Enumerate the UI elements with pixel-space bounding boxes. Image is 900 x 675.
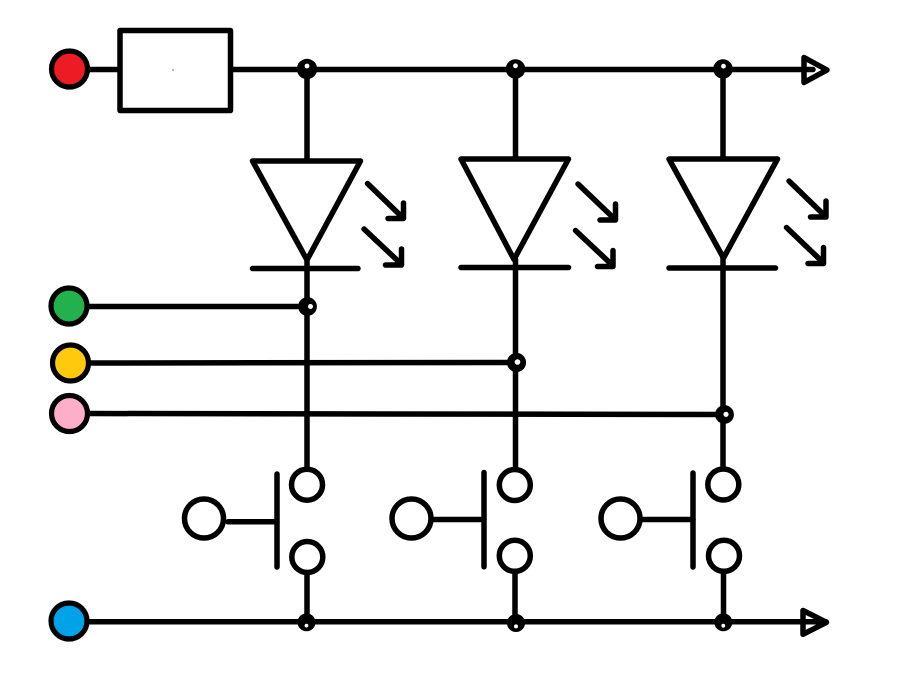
wire LED D3 cathode to switch S3 — [720, 258, 726, 467]
LED D2 emission arrow 2 — [576, 231, 614, 267]
LED D2 triangle — [461, 159, 569, 260]
wire node C to LED D3 anode — [720, 73, 726, 159]
LED D1 cathode bar — [253, 266, 359, 272]
switch S1 actuator bar — [274, 474, 280, 567]
LED D2 cathode bar — [461, 265, 569, 271]
LED D1 emission arrow 1 — [368, 184, 404, 219]
LED D1 emission arrow 2 — [364, 229, 402, 265]
node C (top rail / LED D3 anode) — [713, 59, 733, 79]
node G (bottom rail / S1) — [298, 613, 316, 631]
terminal J4 (pink, select line 3) — [52, 396, 88, 432]
wire S1 to bottom rail — [304, 573, 310, 621]
switch S3 actuator bar — [690, 473, 696, 567]
wire LED D1 cathode to switch S1 — [304, 260, 310, 467]
speck inside R1 — [172, 69, 174, 71]
switch S2 top contact — [499, 470, 530, 501]
arrow out (top rail continuation) — [804, 58, 827, 83]
switch S1 bottom contact — [292, 542, 323, 573]
wire bottom rail (J5 to arrow) — [88, 619, 826, 625]
wire LED D2 cathode to switch S2 — [513, 260, 519, 468]
switch S1 actuator link — [228, 519, 277, 525]
node B (top rail / LED D2 anode) — [506, 59, 526, 79]
terminal J2 (green, select line 1) — [51, 288, 87, 324]
switch S3 bottom contact — [709, 540, 740, 571]
LED D3 emission arrow 2 — [787, 228, 824, 264]
wire S2 to bottom rail — [512, 572, 518, 623]
switch S1 top contact — [292, 469, 323, 500]
switch S2 button — [392, 499, 431, 538]
LED D3 emission arrow 1 — [789, 181, 826, 217]
switch S3 button — [601, 499, 640, 538]
resistor R1 (box) — [120, 31, 231, 111]
switch S2 actuator bar — [481, 473, 487, 567]
terminal J5 (blue, return rail) — [51, 603, 87, 639]
switch S2 bottom contact — [499, 540, 530, 571]
node D (green line / LED D1 cathode branch) — [298, 297, 317, 316]
wire J2 to node D — [88, 304, 305, 310]
switch S3 actuator link — [644, 517, 694, 523]
node I (bottom rail / S3) — [714, 613, 732, 631]
node F (pink line / LED D3 cathode branch) — [715, 405, 734, 424]
node H (bottom rail / S2) — [507, 614, 525, 632]
terminal J3 (yellow, select line 2) — [53, 345, 89, 381]
wire node A to LED D1 anode — [304, 73, 310, 161]
wire top rail (R1 output to arrow) — [231, 67, 813, 73]
LED D3 cathode bar — [669, 265, 776, 271]
LED D2 emission arrow 1 — [578, 184, 616, 220]
wire J4 to node F — [88, 414, 722, 415]
switch S3 top contact — [708, 469, 739, 500]
wire J1 to R1 — [88, 67, 121, 73]
LED D1 triangle — [253, 161, 361, 260]
switch S1 button — [185, 499, 224, 538]
node A (top rail / LED D1 anode) — [297, 59, 317, 79]
wire S3 to bottom rail — [721, 572, 727, 622]
wire J3 to node E — [89, 360, 514, 366]
LED D3 triangle — [669, 159, 778, 258]
terminal J1 (red, supply input) — [52, 51, 88, 87]
node E (yellow line / LED D2 cathode branch) — [507, 353, 526, 372]
switch S2 actuator link — [435, 517, 485, 523]
arrow out (bottom rail continuation) — [803, 611, 827, 635]
wire node B to LED D2 anode — [513, 73, 519, 159]
